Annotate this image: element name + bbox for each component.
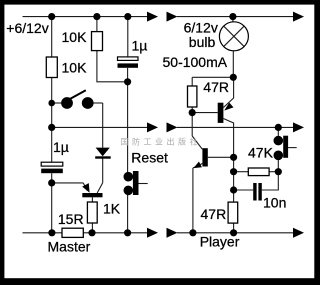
svg-text:1µ: 1µ <box>132 38 148 54</box>
wire: bulb top <box>232 17 234 22</box>
wire: 1K to Master rail <box>91 223 93 233</box>
svg-text:bulb: bulb <box>189 34 216 50</box>
svg-text:50-100mA: 50-100mA <box>163 54 228 70</box>
node Master rail at 1K <box>88 229 95 236</box>
wire: 10n right L up <box>262 172 279 190</box>
switch S1 lever <box>69 90 86 100</box>
svg-text:47R: 47R <box>203 79 229 95</box>
node top rail at bulb <box>229 13 236 20</box>
node cap-emitter tap <box>48 179 55 186</box>
wire: 10K2 bottom L to cap node <box>97 51 128 82</box>
wire: cap node to Q1 emitter <box>52 182 83 184</box>
svg-text:+6/12v: +6/12v <box>6 20 48 36</box>
wire: rail to top 1u cap <box>127 17 129 57</box>
resistor 10K (upper, R1) <box>92 32 103 51</box>
svg-text:47K: 47K <box>248 145 274 161</box>
svg-text:Reset: Reset <box>131 150 168 166</box>
transistor Q1 collector diagonal <box>97 183 103 193</box>
wire: left chain top (rail to 10K) <box>51 17 53 57</box>
svg-text:10n: 10n <box>263 195 286 211</box>
net arrows top rail <box>147 12 158 22</box>
resistor 47R (bottom) <box>228 202 238 223</box>
border frame <box>0 0 320 5</box>
svg-text:10K: 10K <box>62 29 88 45</box>
wire: Q2 collector line down <box>233 157 235 202</box>
node Master rail at reset line <box>124 229 131 236</box>
wire: Q1 base to 1K <box>91 197 93 202</box>
wire: Player button bottom <box>277 155 279 171</box>
node Player rail at 47R2 <box>230 229 237 236</box>
wire: Q3 emitter down to Player rail <box>192 168 194 233</box>
wire: middle node down to 1u cap <box>51 127 53 162</box>
transistor Q3 (NPN) bar <box>202 148 207 166</box>
wire: switch node to left contact <box>52 102 67 104</box>
wire: Reset button to Master rail <box>127 190 129 232</box>
wire: 1u cap to Master rail <box>51 173 53 233</box>
wire: Q2 collector diagonal <box>223 119 233 158</box>
wire: middle rail left segment <box>52 126 148 128</box>
svg-text:Master: Master <box>48 239 91 255</box>
resistor 47K (horizontal) <box>248 168 269 176</box>
svg-text:15R: 15R <box>58 211 84 227</box>
wire: 47K row left <box>234 171 249 173</box>
capacitor 10n <box>253 183 256 201</box>
wire: 10K to switch node <box>51 78 53 128</box>
node top rail at cap line <box>124 13 131 20</box>
reset button stem <box>139 183 148 185</box>
net arrows middle rail <box>147 122 158 132</box>
wire: top rail right segment <box>177 16 294 18</box>
wire: top cap down to Reset button <box>127 68 129 177</box>
transistor Q2 (PNP) bar <box>218 103 224 123</box>
wire: 47R2 bottom to Player rail <box>233 223 235 233</box>
node top rail at 10K2 line <box>48 13 55 20</box>
switch S1 contacts <box>61 97 73 109</box>
transistor Q3 emitter arrow <box>194 162 202 169</box>
wire: Master rail <box>23 232 63 234</box>
wire: rail to 10K2 <box>96 17 98 32</box>
wire: bulb bottom to node <box>232 51 234 78</box>
wire: middle rail right segment <box>177 126 294 128</box>
wire: top node to 47R <box>192 76 233 78</box>
transistor Q2 emitter arrow <box>224 103 233 111</box>
diode D1 <box>96 148 110 157</box>
reset button plate <box>133 171 139 195</box>
node middle rail at player button <box>275 124 282 131</box>
node bulb bottom / 47R <box>230 74 237 81</box>
node Master rail at cap line <box>48 229 55 236</box>
resistor 47R (top) <box>188 86 197 107</box>
wire: Q3 base <box>208 156 234 158</box>
player button contacts <box>274 136 284 146</box>
bulb lamp symbol <box>219 22 248 51</box>
node 10n row left <box>230 186 237 193</box>
wire: Q3 emitter diagonal <box>193 164 203 169</box>
resistor 15R <box>62 228 83 237</box>
wire: Player button top <box>277 127 279 140</box>
wire: 47R bottom to node <box>191 107 193 113</box>
svg-text:1K: 1K <box>103 201 121 217</box>
transistor Q1 emitter with arrow <box>83 183 87 191</box>
node Q3 base tap <box>230 154 237 161</box>
svg-text:10K: 10K <box>62 60 88 76</box>
wire: 10n row left <box>234 189 254 191</box>
node 47K row right <box>275 168 282 175</box>
node 47K row left <box>230 168 237 175</box>
svg-text:国防工业出版社: 国防工业出版社 <box>121 137 202 147</box>
wire: right contact to diode line <box>88 102 103 104</box>
wire: Q3 collector diagonal <box>192 136 202 149</box>
resistor 1K <box>87 202 97 223</box>
node Player rail at Q3 emitter <box>189 229 196 236</box>
player button plate <box>283 136 288 158</box>
wire: diode cathode to Q1 collector <box>102 159 104 183</box>
capacitor 1u (left) <box>41 162 63 166</box>
node switch tap <box>48 100 55 107</box>
wire: 47K row right <box>269 171 278 173</box>
player button stem <box>288 147 297 149</box>
svg-text:47R: 47R <box>201 206 227 222</box>
resistor 10K (left, R2) <box>46 57 57 78</box>
node middle rail left <box>48 124 55 131</box>
node 47R / Q2 base <box>189 109 196 116</box>
wire: Player rail <box>177 232 294 234</box>
node cap / 10K2 junction <box>124 78 131 85</box>
wire: Q2 base <box>192 112 218 114</box>
transistor Q1 (PNP) bar <box>82 193 102 197</box>
node top rail at 10K1 <box>93 13 100 20</box>
wire: top rail left segment <box>23 16 148 18</box>
svg-text:1µ: 1µ <box>53 139 69 155</box>
net arrows bottom rails <box>147 228 158 238</box>
reset button contacts <box>124 172 134 182</box>
wire: node down to Q3 collector <box>191 113 193 136</box>
wire: Q2 emitter diagonal <box>223 77 233 107</box>
capacitor 1u (top) <box>118 57 139 61</box>
